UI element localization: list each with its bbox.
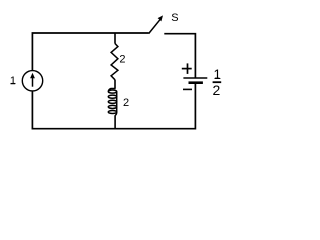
battery minus sign [183,88,192,90]
label 1/2 (battery value fraction) [213,67,222,98]
battery plus sign [182,63,192,74]
svg-text:2: 2 [213,82,221,98]
inductor L 2 H [108,89,116,116]
wire switch right contact horizontal and right vertical upper [164,34,195,78]
svg-text:1: 1 [213,67,221,82]
svg-text:S: S [171,12,178,24]
svg-text:2: 2 [119,54,125,66]
wire middle stub between resistor and inductor [114,80,116,89]
current source I1 [22,71,42,91]
svg-text:1: 1 [10,75,16,87]
label 1 (current source value) [10,75,16,87]
switch S blade with arrow [149,15,163,33]
battery V top plate [183,77,207,79]
battery V bottom plate [189,81,203,84]
wire left vertical and top horizontal [32,33,148,71]
wire middle branch bottom stub [114,115,116,129]
svg-text:2: 2 [123,97,129,109]
resistor R 2 ohm [111,44,118,80]
wire left vertical lower and bottom horizontal [32,91,195,129]
wire right vertical lower [194,84,196,130]
wire middle branch top stub [114,33,116,44]
